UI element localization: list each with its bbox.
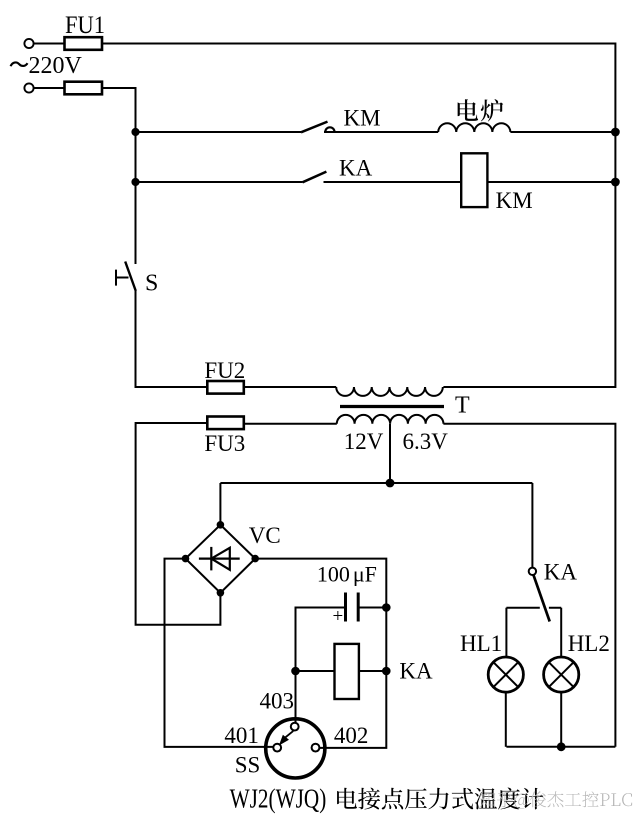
svg-text:402: 402 <box>334 723 369 748</box>
svg-text:220V: 220V <box>29 53 83 79</box>
svg-text:FU2: FU2 <box>204 358 245 383</box>
svg-text:401: 401 <box>224 723 259 748</box>
svg-text:12V: 12V <box>344 429 384 454</box>
svg-text:100μF: 100μF <box>317 562 377 587</box>
svg-text:+: + <box>333 606 344 627</box>
svg-text:HL1: HL1 <box>460 631 502 656</box>
svg-text:SS: SS <box>235 753 261 778</box>
svg-text:FU3: FU3 <box>204 431 245 456</box>
svg-text:S: S <box>145 271 158 297</box>
svg-text:HL2: HL2 <box>568 631 610 656</box>
svg-text:403: 403 <box>260 689 295 714</box>
svg-text:VC: VC <box>249 523 281 548</box>
svg-text:T: T <box>455 393 470 419</box>
svg-text:WJ2(WJQ): WJ2(WJQ) <box>230 784 327 814</box>
svg-text:KA: KA <box>339 156 373 181</box>
svg-text:KA: KA <box>399 659 433 684</box>
svg-text:FU1: FU1 <box>65 12 105 39</box>
svg-text:KM: KM <box>496 188 533 213</box>
svg-text:6.3V: 6.3V <box>403 429 449 454</box>
svg-text:KA: KA <box>544 560 578 585</box>
svg-text:KM: KM <box>344 106 381 131</box>
